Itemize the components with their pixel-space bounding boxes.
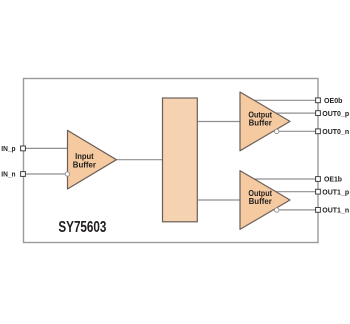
device outline SY75603 <box>24 79 319 243</box>
svg-text:OUT1_n: OUT1_n <box>322 206 349 215</box>
svg-text:OUT1_p: OUT1_p <box>322 188 349 197</box>
wire OUT0_p <box>272 112 318 114</box>
svg-text:OE1b: OE1b <box>324 175 342 184</box>
input buffer U1 <box>68 130 117 189</box>
svg-text:Buffer: Buffer <box>249 119 272 128</box>
inversion bubble on OUT0_n output <box>275 129 279 133</box>
wire OUT0_n <box>277 130 319 132</box>
output buffer U2 <box>240 92 290 151</box>
wire middle block to output buffer U3 <box>197 199 241 201</box>
pin OE1b <box>316 177 321 182</box>
output buffer U3 <box>240 171 290 230</box>
svg-text:IN_n: IN_n <box>1 169 16 178</box>
pin OUT1_p <box>316 189 321 194</box>
svg-text:OUT0_p: OUT0_p <box>322 109 349 118</box>
wire input buffer output to middle block <box>116 159 163 161</box>
inversion bubble on IN_n input <box>65 172 69 176</box>
middle block (mux/driver stage) <box>163 98 198 222</box>
svg-text:OUT0_n: OUT0_n <box>322 127 349 136</box>
wire OE1b <box>252 178 318 180</box>
pin OUT0_n <box>316 129 321 134</box>
inversion bubble on OUT1_n output <box>275 208 279 212</box>
wire OUT1_p <box>272 191 318 193</box>
wire OE0b <box>252 99 318 101</box>
wire IN_n <box>23 173 65 175</box>
svg-text:SY75603: SY75603 <box>58 219 106 236</box>
pin OUT0_p <box>316 111 321 116</box>
pin IN_n <box>21 172 26 177</box>
svg-text:Buffer: Buffer <box>73 161 96 170</box>
svg-text:OE0b: OE0b <box>324 96 343 105</box>
pin IN_p <box>21 146 26 151</box>
pin OUT1_n <box>316 208 321 213</box>
wire IN_p <box>23 147 68 149</box>
svg-text:Buffer: Buffer <box>249 197 272 206</box>
svg-text:IN_p: IN_p <box>1 144 16 153</box>
pin OE0b <box>316 98 321 103</box>
wire middle block to output buffer U2 <box>197 121 241 123</box>
wire OUT1_n <box>277 209 319 211</box>
